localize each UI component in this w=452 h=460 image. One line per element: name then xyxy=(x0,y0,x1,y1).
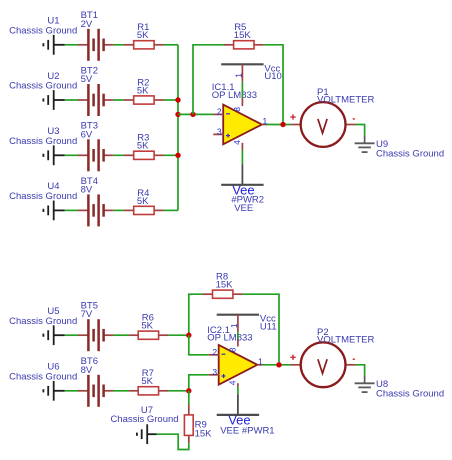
U2 chassis ground xyxy=(9,71,77,110)
svg-text:VEE: VEE xyxy=(234,203,253,214)
battery BT2 5V xyxy=(78,65,113,116)
resistor R3 5K xyxy=(124,133,164,160)
wire BT6 to resistor xyxy=(113,390,128,392)
svg-text:Chassis Ground: Chassis Ground xyxy=(9,191,77,202)
resistor R9 15K xyxy=(184,405,212,444)
svg-text:VOLTMETER: VOLTMETER xyxy=(317,94,374,105)
U7 chassis ground xyxy=(110,405,178,444)
svg-text:5K: 5K xyxy=(137,196,149,207)
junction R7 node xyxy=(186,388,191,393)
battery BT1 2V xyxy=(78,10,113,61)
svg-text:7V: 7V xyxy=(81,309,93,320)
op-amp IC2.1 OP LM833 xyxy=(207,325,263,387)
svg-text:Chassis Ground: Chassis Ground xyxy=(9,136,77,147)
wire ground U2 to BT2 xyxy=(65,99,78,101)
svg-text:VEE #PWR1: VEE #PWR1 xyxy=(220,426,274,437)
wire bus to IC1.1 pin2 xyxy=(178,113,213,115)
junction feedback at pin2 wire xyxy=(190,112,195,117)
svg-text:Chassis Ground: Chassis Ground xyxy=(110,414,178,425)
resistor R6 5K xyxy=(128,313,168,340)
wire ground U1 to BT1 xyxy=(65,44,78,46)
svg-text:OP LM833: OP LM833 xyxy=(207,333,252,344)
U8 chassis ground xyxy=(355,375,445,399)
wire IC1.1 output to P1 xyxy=(267,124,291,126)
wire junction to R9 xyxy=(188,391,190,405)
wire R8 to output node xyxy=(243,294,279,365)
wire IC2.1 pin4 to Vee xyxy=(237,386,239,394)
wire R6 to junction xyxy=(168,334,188,336)
wire R4 to summing bus xyxy=(164,209,178,211)
battery BT3 6V xyxy=(78,121,113,172)
wire junction to IC2.1 pin2 xyxy=(189,335,209,355)
wire ground U5 to BT5 xyxy=(65,334,78,336)
wire ground U6 to BT6 xyxy=(65,390,78,392)
resistor R1 5K xyxy=(124,22,164,49)
wire Vcc to IC1.1 pin8 xyxy=(241,82,243,98)
svg-text:4: 4 xyxy=(228,380,238,385)
svg-text:1: 1 xyxy=(229,323,239,328)
svg-text:VOLTMETER: VOLTMETER xyxy=(317,335,374,346)
svg-text:4: 4 xyxy=(232,140,242,145)
wire BT5 to resistor xyxy=(113,334,128,336)
junction output node xyxy=(280,122,285,127)
wire feedback left leg to R5 xyxy=(193,45,226,115)
svg-text:1: 1 xyxy=(234,73,244,78)
battery BT4 8V xyxy=(78,176,113,227)
wire summing bus xyxy=(177,45,179,211)
wire P2 to U8 ground xyxy=(356,365,365,376)
svg-text:8: 8 xyxy=(228,347,238,352)
resistor R8 15K xyxy=(203,272,243,299)
svg-text:15K: 15K xyxy=(195,428,213,439)
svg-text:2V: 2V xyxy=(81,19,93,30)
wire R3 to summing bus xyxy=(164,154,178,156)
svg-text:6V: 6V xyxy=(81,129,93,140)
op-amp IC1.1 OP LM833 xyxy=(212,82,268,151)
svg-text:Chassis Ground: Chassis Ground xyxy=(376,149,444,160)
wire R9 to U7 ground xyxy=(157,434,189,449)
wire IC1.1 pin4 to Vee xyxy=(241,150,243,164)
junction bus row2 xyxy=(175,97,180,102)
svg-text:Chassis Ground: Chassis Ground xyxy=(9,81,77,92)
Vee power symbol xyxy=(221,164,264,214)
svg-text:15K: 15K xyxy=(216,280,234,291)
battery BT6 8V xyxy=(78,356,113,407)
junction output node 2 xyxy=(276,362,281,367)
svg-text:5K: 5K xyxy=(141,376,153,387)
svg-text:OP LM833: OP LM833 xyxy=(212,90,257,101)
wire junction to IC2.1 pin3 xyxy=(189,375,209,391)
wire P1 to U9 ground xyxy=(356,125,365,136)
svg-text:2: 2 xyxy=(212,347,217,357)
Vcc power symbol U11 xyxy=(217,314,277,333)
resistor R2 5K xyxy=(124,77,164,104)
voltmeter P2 xyxy=(290,327,374,387)
svg-text:1: 1 xyxy=(258,356,263,366)
Vcc power symbol U10 xyxy=(221,63,282,82)
svg-text:8V: 8V xyxy=(81,365,93,376)
junction bus to pin2 wire xyxy=(175,112,180,117)
resistor R5 15K xyxy=(224,22,264,49)
voltmeter P1 xyxy=(290,87,374,147)
svg-text:5K: 5K xyxy=(137,30,149,41)
wire BT3 to R3 xyxy=(113,154,124,156)
svg-text:5K: 5K xyxy=(137,85,149,96)
svg-text:15K: 15K xyxy=(234,30,252,41)
wire ground U3 to BT3 xyxy=(65,154,78,156)
svg-text:Chassis Ground: Chassis Ground xyxy=(9,316,77,327)
U9 chassis ground xyxy=(355,135,445,159)
wire BT2 to R2 xyxy=(113,99,124,101)
svg-text:8: 8 xyxy=(232,107,242,112)
svg-text:5K: 5K xyxy=(141,321,153,332)
U4 chassis ground xyxy=(9,181,77,220)
wire R2 to summing bus xyxy=(164,99,178,101)
wire feedback left leg R8 xyxy=(189,294,204,335)
Vee power symbol xyxy=(217,394,275,436)
U6 chassis ground xyxy=(9,362,77,401)
wire BT4 to R4 xyxy=(113,209,124,211)
svg-text:3: 3 xyxy=(212,367,217,377)
svg-text:8V: 8V xyxy=(81,184,93,195)
wire R1 to summing bus xyxy=(164,44,178,46)
wire R5 to output node xyxy=(264,45,283,125)
svg-text:Chassis Ground: Chassis Ground xyxy=(376,389,444,400)
svg-text:Chassis Ground: Chassis Ground xyxy=(9,26,77,37)
svg-text:5V: 5V xyxy=(81,74,93,85)
svg-text:U10: U10 xyxy=(264,71,281,82)
resistor R4 5K xyxy=(124,188,164,215)
svg-text:U11: U11 xyxy=(260,322,277,333)
wire ground U4 to BT4 xyxy=(65,209,78,211)
svg-text:5K: 5K xyxy=(137,141,149,152)
wire IC2.1 output to P2 xyxy=(263,364,291,366)
wire R7 to junction xyxy=(168,390,188,392)
junction bus row3 xyxy=(175,153,180,158)
wire BT1 to R1 xyxy=(113,44,124,46)
U3 chassis ground xyxy=(9,126,77,165)
svg-text:2: 2 xyxy=(217,107,222,117)
resistor R7 5K xyxy=(128,368,168,395)
junction R6 summing node xyxy=(186,333,191,338)
svg-text:Chassis Ground: Chassis Ground xyxy=(9,372,77,383)
U1 chassis ground xyxy=(9,16,77,55)
svg-text:3: 3 xyxy=(217,127,222,137)
battery BT5 7V xyxy=(78,301,113,352)
wire Vcc to IC2.1 pin8 xyxy=(237,332,239,339)
U5 chassis ground xyxy=(9,306,77,345)
